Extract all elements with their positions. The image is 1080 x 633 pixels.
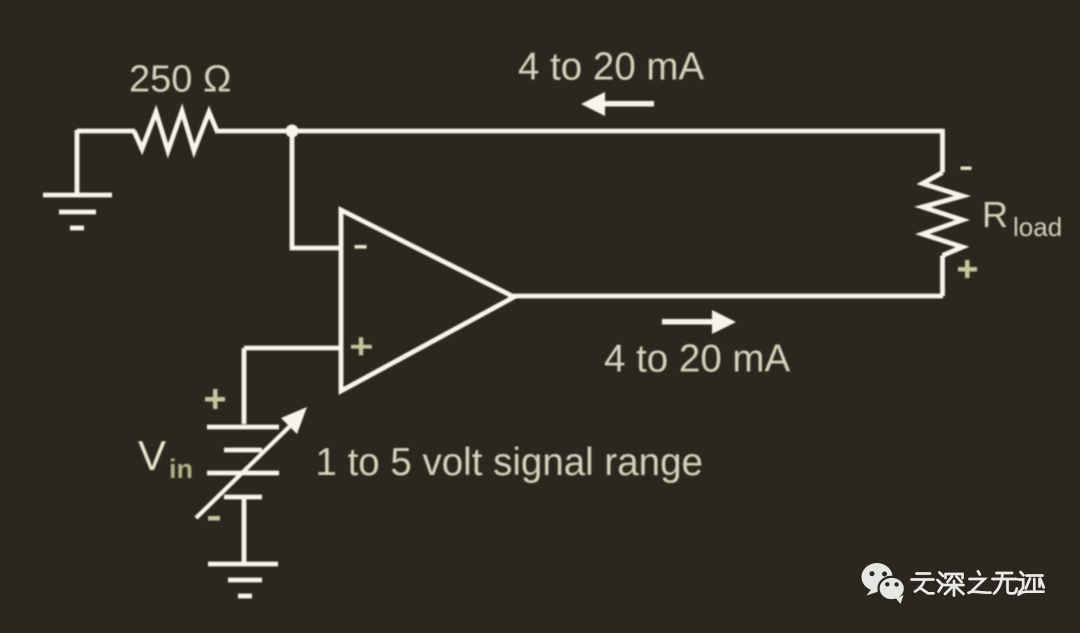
resistor R1 250 ohm (134, 111, 217, 151)
op-amp plus pin label (351, 337, 372, 355)
之 (969, 571, 991, 593)
wire: node down to inverting input (292, 131, 341, 248)
无 (993, 573, 1017, 594)
small bubble eyes (885, 582, 899, 587)
watermark wechat logo (862, 563, 893, 596)
svg-text:V: V (138, 432, 166, 479)
battery plate 1 (long) (207, 425, 279, 430)
svg-text:in: in (169, 454, 193, 484)
wire: Vin to non-inverting input (244, 346, 341, 351)
battery plate 2 (short) (224, 448, 262, 453)
big bubble (862, 563, 893, 591)
battery plate 3 (long) (207, 471, 279, 476)
battery plus polarity (205, 389, 225, 409)
resistor Rload (923, 173, 963, 256)
svg-text:load: load (1013, 212, 1062, 242)
wire: ground to resistor (77, 129, 135, 134)
small bubble (879, 577, 905, 604)
arrow (current direction, top, pointing left) (581, 92, 654, 116)
variable-source arrow through battery (195, 407, 308, 520)
watermark text: 云深之无迹 (912, 571, 1044, 595)
op-amp U1 (341, 210, 514, 391)
op-amp minus pin label (355, 245, 367, 249)
wire: top rail to Rload (940, 129, 945, 173)
battery minus polarity (208, 516, 220, 521)
Rload plus polarity (958, 260, 977, 278)
深 (938, 573, 944, 592)
node A (junction dot) (286, 125, 299, 138)
wire: Rload bottom to output rail (940, 256, 945, 297)
Rload minus polarity (961, 167, 972, 170)
迹 (1019, 572, 1044, 595)
svg-text:R: R (982, 194, 1008, 235)
svg-text:4 to 20 mA: 4 to 20 mA (604, 338, 791, 381)
battery plate 4 (short) (224, 495, 262, 500)
svg-text:4 to 20 mA: 4 to 20 mA (518, 46, 705, 89)
svg-text:250 Ω: 250 Ω (129, 59, 231, 101)
wire: battery to ground (242, 499, 247, 564)
wire: resistor to node to right side (215, 129, 943, 134)
arrow (current direction, bottom, pointing right) (662, 310, 736, 334)
big bubble eyes (870, 571, 888, 576)
ground (below Vin) (208, 564, 278, 596)
battery Vin (variable source): wire from + input down (242, 348, 247, 424)
wire: op-amp output to load (512, 294, 943, 299)
云 (912, 574, 934, 594)
ground (left, input side) (43, 130, 112, 228)
svg-text:1 to 5 volt signal range: 1 to 5 volt signal range (316, 441, 703, 484)
